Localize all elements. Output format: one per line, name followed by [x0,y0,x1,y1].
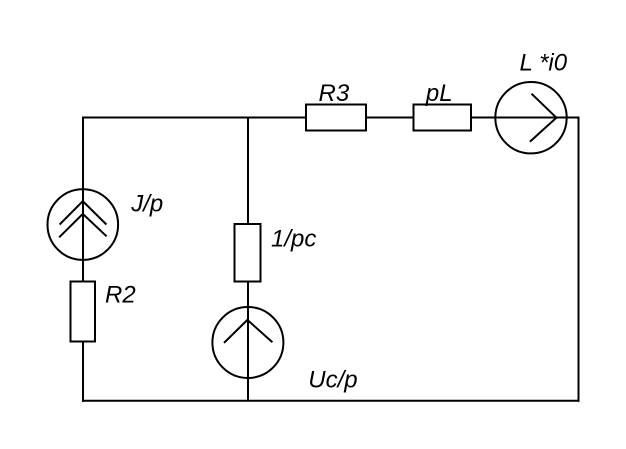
resistor R2 [71,282,96,342]
wire left vertical through J/p source [82,117,84,282]
svg-text:Uc/p: Uc/p [308,366,357,393]
current source L*i0 [495,82,566,153]
wire (R3 to pL) [366,117,414,119]
wire top (top-left corner to R3) [82,117,306,119]
voltage source Uc/p [212,307,283,378]
svg-text:R3: R3 [319,80,350,107]
current source J/p [48,189,119,260]
capacitor impedance 1/pc [235,224,261,282]
svg-text:1/pc: 1/pc [271,226,316,253]
inductor impedance pL [414,105,472,131]
wire (pL through L*i0 to top-right corner) [471,117,580,119]
svg-text:R2: R2 [105,282,136,309]
svg-text:L *i0: L *i0 [520,50,568,77]
wire left vertical (R2 to bottom-left corner) [82,342,84,402]
wire middle vertical (top junction to 1/pc) [247,117,249,225]
wire right vertical [578,117,580,402]
resistor R3 [306,105,366,131]
wire bottom horizontal [82,400,580,402]
wire middle vertical through Uc/p source to bottom [247,282,249,401]
svg-text:J/p: J/p [130,191,163,218]
svg-text:pL: pL [425,80,453,107]
